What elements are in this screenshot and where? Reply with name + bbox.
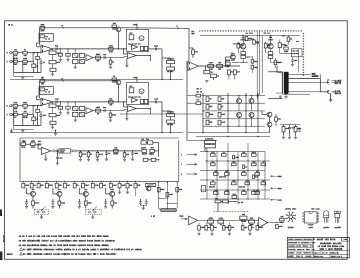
rail link E33 (159, 198, 168, 200)
node out2 ch1 (110, 57, 111, 58)
resistor RB7 bus dropper (73, 183, 76, 188)
wire mixer output ch2 (136, 108, 150, 110)
ch1 wire to power amp mid (120, 113, 203, 115)
grid dots E49 (238, 95, 239, 96)
resistor RB1 bus dropper (22, 183, 25, 188)
title line 1 (320, 242, 321, 244)
resistor R66 (143, 158, 148, 161)
ground RV2 (229, 230, 231, 233)
mid cluster cap E22 (239, 186, 242, 188)
resistor RB12 bus dropper (118, 183, 121, 188)
resistor RM6 (232, 163, 237, 166)
resistor R211 level (167, 61, 175, 64)
label P2 (334, 90, 337, 91)
title block row line (313, 250, 349, 252)
resistor R132 shunt2 (110, 111, 112, 113)
wire power amp input drop (188, 28, 190, 61)
node bottom junctions (202, 132, 203, 133)
resistor R142 mix top (109, 101, 114, 104)
ground FS1 (40, 215, 42, 217)
node reverb rail (158, 159, 159, 160)
label TOP VIEW (311, 208, 314, 210)
wire to level boxes ch2 (162, 110, 171, 112)
jack FS1A (37, 211, 39, 213)
power amp band resistor E2 (253, 40, 256, 44)
wire speaker tap3 (288, 91, 329, 93)
wire ground rail b ch1 (14, 76, 34, 78)
footswitch jack box FS1 (34, 209, 48, 215)
capacitor C61 ladder (40, 58, 42, 62)
op-amp U5 reverb driver (42, 147, 51, 154)
resistor R47 cluster A (241, 52, 246, 55)
vertical rail x187 feedback (186, 61, 188, 141)
label +15V rail (271, 175, 277, 177)
label CA3094 (287, 227, 290, 228)
wire input row2 ch1 (18, 61, 23, 63)
node above board (55, 130, 56, 131)
bus dropper ground E36 (119, 188, 121, 192)
reverb wire capacitor E16 (132, 151, 134, 153)
wire speaker tap1 (288, 73, 311, 75)
resistor RM2 (222, 154, 227, 157)
tremolo block box ch1 (127, 30, 149, 52)
resistor R42 input (23, 104, 28, 107)
label 4558 (308, 227, 311, 228)
node J1 junction (177, 28, 178, 29)
resistor R51 input2 (12, 61, 13, 63)
node tone b ch2 (67, 101, 68, 102)
power band wire E27 (288, 36, 290, 38)
wire Q20 base (27, 193, 31, 195)
jack FS1B (42, 211, 44, 213)
wire RE1 (275, 114, 277, 117)
resistor R161 in tremolo (129, 35, 134, 40)
company name (317, 239, 318, 241)
transistor Q21 tremolo stage (57, 189, 60, 190)
lamp LP2 in tremolo (139, 89, 144, 94)
resistor R191 tremolo (140, 46, 143, 50)
wire Q22 emitter (85, 196, 87, 201)
resistor RM16 (261, 182, 266, 185)
resistor R52 input2 (12, 114, 13, 116)
resistor RM9 (214, 173, 219, 176)
resistor R151 collector (112, 25, 116, 27)
resistor R202 tremolo (144, 99, 147, 103)
wire mixer drop ch1 (149, 56, 151, 62)
op-amp U11B (86, 55, 93, 61)
capacitor CF1 filter (140, 199, 142, 202)
wire right vertical ch2 (161, 102, 163, 133)
ground pot grid ch1 (74, 64, 76, 67)
wire block out right ch1 (149, 48, 162, 50)
transistor Q8 output (237, 113, 242, 118)
ground pot grid ch2 (74, 117, 76, 120)
label box output spec (291, 49, 302, 57)
pot grid box 2 ch1 (79, 54, 84, 58)
resistor RB8 bus dropper (82, 183, 85, 188)
pot wiper circle (204, 149, 207, 152)
vertical rail x167.4 (166, 182, 168, 208)
wire y118.8 row (203, 118, 265, 120)
vertical rail x259.7 (259, 32, 261, 96)
pot grid box 4 ch1 (79, 60, 84, 64)
resistor RM14 (232, 182, 237, 185)
label R40 (191, 31, 194, 33)
vertical mid x238 (237, 152, 239, 205)
power amp band resistor E4 (231, 56, 236, 59)
wire Q11 Q12 links (269, 117, 271, 122)
wire Q20 emitter (32, 196, 34, 201)
vertical mid x265 (264, 152, 266, 200)
board outline top (20, 137, 179, 139)
wire mid row y161 (205, 160, 270, 162)
wire top rail channel 1 (40, 27, 117, 29)
label NOTE prefix (7, 254, 8, 255)
resistor R42 series (208, 64, 214, 67)
node input dots ch2 (34, 105, 35, 106)
resistor R32 input (12, 105, 13, 107)
op-amp U12B (86, 108, 93, 114)
wire top feed (221, 200, 223, 202)
resistor R62 input2 (23, 113, 28, 116)
output transformer T1 coil (284, 72, 288, 94)
pot grid box 2 ch2 (79, 107, 84, 111)
power band label E28 (295, 41, 298, 42)
node driver junction (225, 65, 226, 66)
capacitor CE2 bypass (78, 199, 80, 202)
resistor R152 collector (112, 78, 116, 80)
capacitor C42 ladder (33, 115, 35, 118)
wire tap link vertical (319, 74, 321, 82)
label 4FT (150, 216, 153, 217)
wire U3 lower input ch2 (123, 110, 125, 111)
rail link E34 (167, 203, 177, 205)
resistor RM15 (245, 182, 250, 185)
node input dots ch1 (34, 52, 35, 53)
wire ground rail b ch2 (14, 129, 34, 131)
diode D1 bias (251, 60, 253, 64)
node mixer out ch2 (150, 108, 151, 109)
ground E13 (106, 154, 108, 158)
wire mid row y151.5 (200, 151, 265, 153)
vertical rail x258 (257, 93, 259, 133)
resistor R81 ladder (37, 53, 39, 57)
mid resistor E43 (196, 102, 201, 105)
transistor Q11 (116, 27, 121, 32)
capacitor C111 out (155, 47, 157, 50)
title block scale cell (329, 254, 331, 257)
wire Q22 base (79, 193, 83, 195)
resistor R22 inside gain box (40, 88, 44, 91)
label LOAD (178, 215, 181, 216)
wire R41 tap (189, 47, 193, 49)
ground RV1 (211, 230, 213, 233)
label TR5 cluster A (241, 37, 244, 38)
resistor RE22 (84, 201, 87, 205)
wire pot grid feed ch1 (74, 49, 76, 54)
resistor RB13 bus dropper (126, 183, 129, 188)
resistor R60 reverb in (21, 143, 26, 146)
capacitor C52 drop a (60, 102, 62, 106)
node out2 ch2 (110, 110, 111, 111)
title line 3 (320, 248, 321, 249)
label main speaker (311, 73, 314, 74)
wire U7 out (268, 222, 283, 224)
resistor R54 chain (227, 70, 230, 75)
label TO92 (322, 227, 325, 228)
note line 2 (18, 240, 21, 242)
wire y110.9 row (203, 110, 265, 112)
resistor RM13 (211, 182, 216, 185)
transistor Q6 cluster B (268, 44, 273, 49)
reverb wire resistor E12 (97, 151, 99, 153)
note line 4 (22, 249, 25, 251)
wire input ladder v2 ch2 (22, 116, 24, 126)
title line 2 (317, 246, 320, 247)
rail dots E35 (158, 182, 159, 183)
power amp band label E6 (233, 43, 236, 44)
resistor RM8 (261, 163, 266, 166)
wire feedback left drop ch2 (39, 81, 41, 98)
capacitor C112 out (155, 100, 157, 103)
label P1 (334, 80, 337, 81)
resistor R61 reverb (31, 143, 36, 146)
wire transformer bottom out (289, 93, 310, 95)
wire P2 ground drop (330, 94, 332, 100)
wire speaker tap2 (320, 91, 329, 93)
connector P2 ext speaker (327, 90, 334, 93)
arrow LDR FS1 (41, 206, 45, 210)
op-amp U6 recovery (189, 216, 198, 225)
power amp band wire E5 (231, 52, 233, 57)
node tone a ch1 (60, 48, 61, 49)
node mid junction dots (206, 160, 207, 161)
power amp band wire E11 (292, 57, 294, 60)
transistor TO220 pictorial (334, 211, 340, 213)
input jack J2A (10, 105, 12, 107)
ground CF (142, 206, 144, 208)
wire mid row y190 (200, 189, 270, 191)
resistor RB4 bus dropper (45, 183, 48, 188)
node bus junction ch2 (161, 132, 162, 133)
resistor R21 inside gain box (40, 35, 44, 38)
mid cluster cap E21 (209, 186, 212, 188)
wire input ladder v1 ch2 (13, 107, 15, 126)
title block outer box (287, 237, 349, 257)
node junction top rail ch1 (62, 27, 63, 28)
resistor R52 right (278, 43, 281, 48)
scan mark left edge bottom (0, 252, 2, 261)
wire op-amp output ch1 (53, 48, 127, 50)
resistor R222 level (167, 120, 175, 123)
title block size cell (320, 251, 322, 255)
ground FS2 (92, 215, 94, 217)
wire U3 lower input ch1 (123, 57, 125, 58)
wire U5 input (38, 148, 42, 150)
wire bias links (251, 56, 253, 60)
wire transformer top feed (268, 71, 282, 73)
note line 5 (22, 253, 25, 255)
resistor RM21 (232, 196, 237, 199)
corner label top left (7, 24, 10, 25)
label reverb mixer (140, 147, 143, 149)
label -15V rail (271, 187, 277, 189)
capacitor C32 coupling (55, 100, 57, 103)
resistor col1 a (206, 97, 209, 102)
pot grid box 1 ch2 (73, 107, 78, 111)
resistor RE20 (32, 201, 35, 205)
warning triangle note 4 (20, 248, 23, 251)
wire reverb to rail (154, 150, 158, 152)
vertical mid x258b (257, 152, 259, 200)
wire mid row y199 (200, 198, 270, 200)
resistor R50 cluster B (268, 52, 273, 55)
tone column box treble ch2 (52, 102, 54, 104)
reverb tank hatched (161, 208, 176, 211)
board outline left (19, 138, 21, 181)
node bus junction ch1 (161, 79, 162, 80)
vertical rail x177.2 (176, 182, 178, 208)
wire speaker tap2 (288, 82, 329, 84)
transistor Q12 right (267, 122, 272, 127)
pot grid box 4 ch2 (79, 113, 84, 117)
vertical rail x228 (227, 93, 229, 133)
wire rows link ch2 (32, 106, 34, 115)
wire pot grid feed ch2 (74, 102, 76, 107)
note line 1 (19, 235, 20, 237)
vibrato speed pot box a (205, 140, 216, 143)
capacitor C81 series2 (103, 56, 105, 59)
op-amp U21 tremolo osc (132, 45, 138, 50)
transistor Q12 (116, 80, 121, 85)
reverb cable plug A (53, 150, 55, 152)
wire y62.4 bottom row (232, 61, 248, 63)
capacitor C21 mix (240, 216, 247, 220)
wire block out right ch2 (149, 101, 162, 103)
power rail top (200, 35, 300, 37)
wire reverb input row (26, 143, 31, 145)
node out rows (227, 103, 228, 104)
ground zobel b (288, 136, 291, 138)
label transformer (279, 95, 282, 96)
vertical mid x248 (247, 143, 249, 199)
resistor R82 ladder (37, 106, 39, 110)
resistor col1 c (206, 112, 209, 117)
input jack J1A (10, 52, 12, 54)
ground CE3 (105, 204, 107, 206)
label 4558 upper (307, 224, 310, 225)
output transformer T1 primary line (281, 72, 283, 93)
resistor R75 out (280, 218, 285, 221)
wire right links (279, 40, 281, 43)
boxes top feed a (215, 200, 221, 203)
ground U5 (45, 155, 47, 159)
resistor R162 in tremolo (129, 88, 134, 93)
resistor R70 (208, 220, 214, 223)
mid label cluster E41 (196, 91, 199, 92)
wire transformer top feed (277, 71, 282, 73)
bottom wire y136.5 (196, 136, 270, 138)
label E45 (196, 99, 199, 100)
wire level chain ch2 (170, 117, 172, 120)
resistor R63 shunt (88, 151, 90, 152)
tone column box mid ch2 (52, 117, 54, 121)
resistor R72 (249, 220, 255, 223)
resistor col2 d (218, 120, 221, 125)
power band resistor E26 (287, 37, 290, 41)
IC can CA3094 pictorial (289, 215, 292, 218)
pot grid box 3 ch1 (73, 60, 78, 64)
resistor RM12 (255, 173, 260, 176)
op-amp U4 driver (188, 62, 198, 71)
resistor RM19 (242, 192, 247, 195)
wire y95.6 row (203, 95, 265, 97)
ground RV3 (249, 230, 251, 233)
capacitor C20 big (202, 185, 204, 186)
resistor R46 cluster A (237, 43, 240, 48)
vertical mid x217 (216, 152, 218, 200)
resistor RB11 bus dropper (109, 183, 112, 188)
capacitor C71 drop b (67, 49, 69, 53)
label BOTTOM VIEW (284, 208, 287, 209)
node mixer out ch1 (150, 55, 151, 56)
resistor RM11 (242, 173, 247, 176)
resistor R11 feedback (40, 26, 45, 29)
transistor Q10 output (249, 113, 254, 118)
resistor R56 chain (226, 62, 231, 65)
reverb cable label box (59, 149, 71, 153)
pot P12 gain box (39, 87, 53, 95)
wire Q21 base (53, 193, 57, 195)
resistor RM10 (225, 173, 230, 176)
bottom wire y140.5 (187, 140, 217, 142)
ground E15 (124, 157, 126, 159)
node rail junction a (243, 35, 244, 36)
vertical rail x203 (202, 93, 204, 133)
wire label boxes (146, 142, 147, 144)
power amp band label E7 (256, 42, 259, 43)
capacitor C51 drop a (60, 49, 62, 53)
vertical mid x207 (206, 152, 208, 200)
power band label E23 (245, 33, 248, 34)
label main speaker (311, 73, 314, 74)
label TO220 (334, 227, 337, 228)
tremolo block box ch2 (127, 83, 149, 105)
ground transformer (284, 96, 287, 98)
resistor R31 input (12, 52, 13, 54)
ground RV0 (198, 230, 200, 233)
connector P2 ext speaker (327, 90, 334, 93)
arrow LDR FS2 (93, 206, 97, 210)
wire mid row y170.5 (200, 170, 265, 172)
output transformer T1 primary line (281, 72, 283, 94)
mid label cluster E40 (196, 88, 199, 89)
power amp band capacitor E3 (248, 38, 251, 40)
wire op2 output ch2 (93, 110, 124, 112)
resistor R58 zobel (282, 127, 285, 132)
transistor TO92 pictorial (324, 211, 329, 218)
tone column box mid ch1 (52, 64, 54, 68)
wire U5 output (51, 150, 53, 152)
resistor RV1 vertical (198, 226, 201, 231)
grid stub E48 (238, 118, 240, 127)
wire r66 row (148, 159, 151, 161)
ground CE2 (78, 204, 80, 206)
wire y126 row (203, 125, 265, 127)
resistor R55 chain (233, 70, 236, 75)
resistor RB5 bus dropper (55, 183, 58, 188)
wire right vertical ch1 (161, 49, 163, 80)
